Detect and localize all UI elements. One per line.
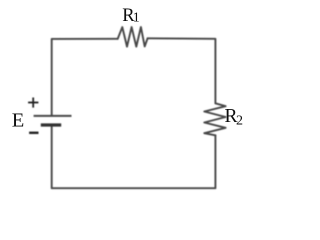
minus sign at battery negative terminal (29, 132, 38, 134)
svg-text:1: 1 (133, 11, 140, 26)
svg-text:E: E (12, 109, 25, 131)
battery E short thick negative plate (41, 123, 61, 126)
resistor R2 zigzag (204, 103, 225, 135)
battery E long positive plate (34, 115, 72, 117)
wire: battery positive terminal up the left side and top wire to R1 (52, 39, 118, 115)
wire: R1 to top-right corner and down right side to R2 (148, 38, 216, 103)
plus sign at battery positive terminal (28, 102, 38, 104)
svg-text:2: 2 (236, 114, 243, 129)
resistor R1 zigzag (118, 27, 148, 46)
wire: R2 down to bottom-right corner, bottom wire, and left side up to battery negative terminal (52, 125, 216, 188)
